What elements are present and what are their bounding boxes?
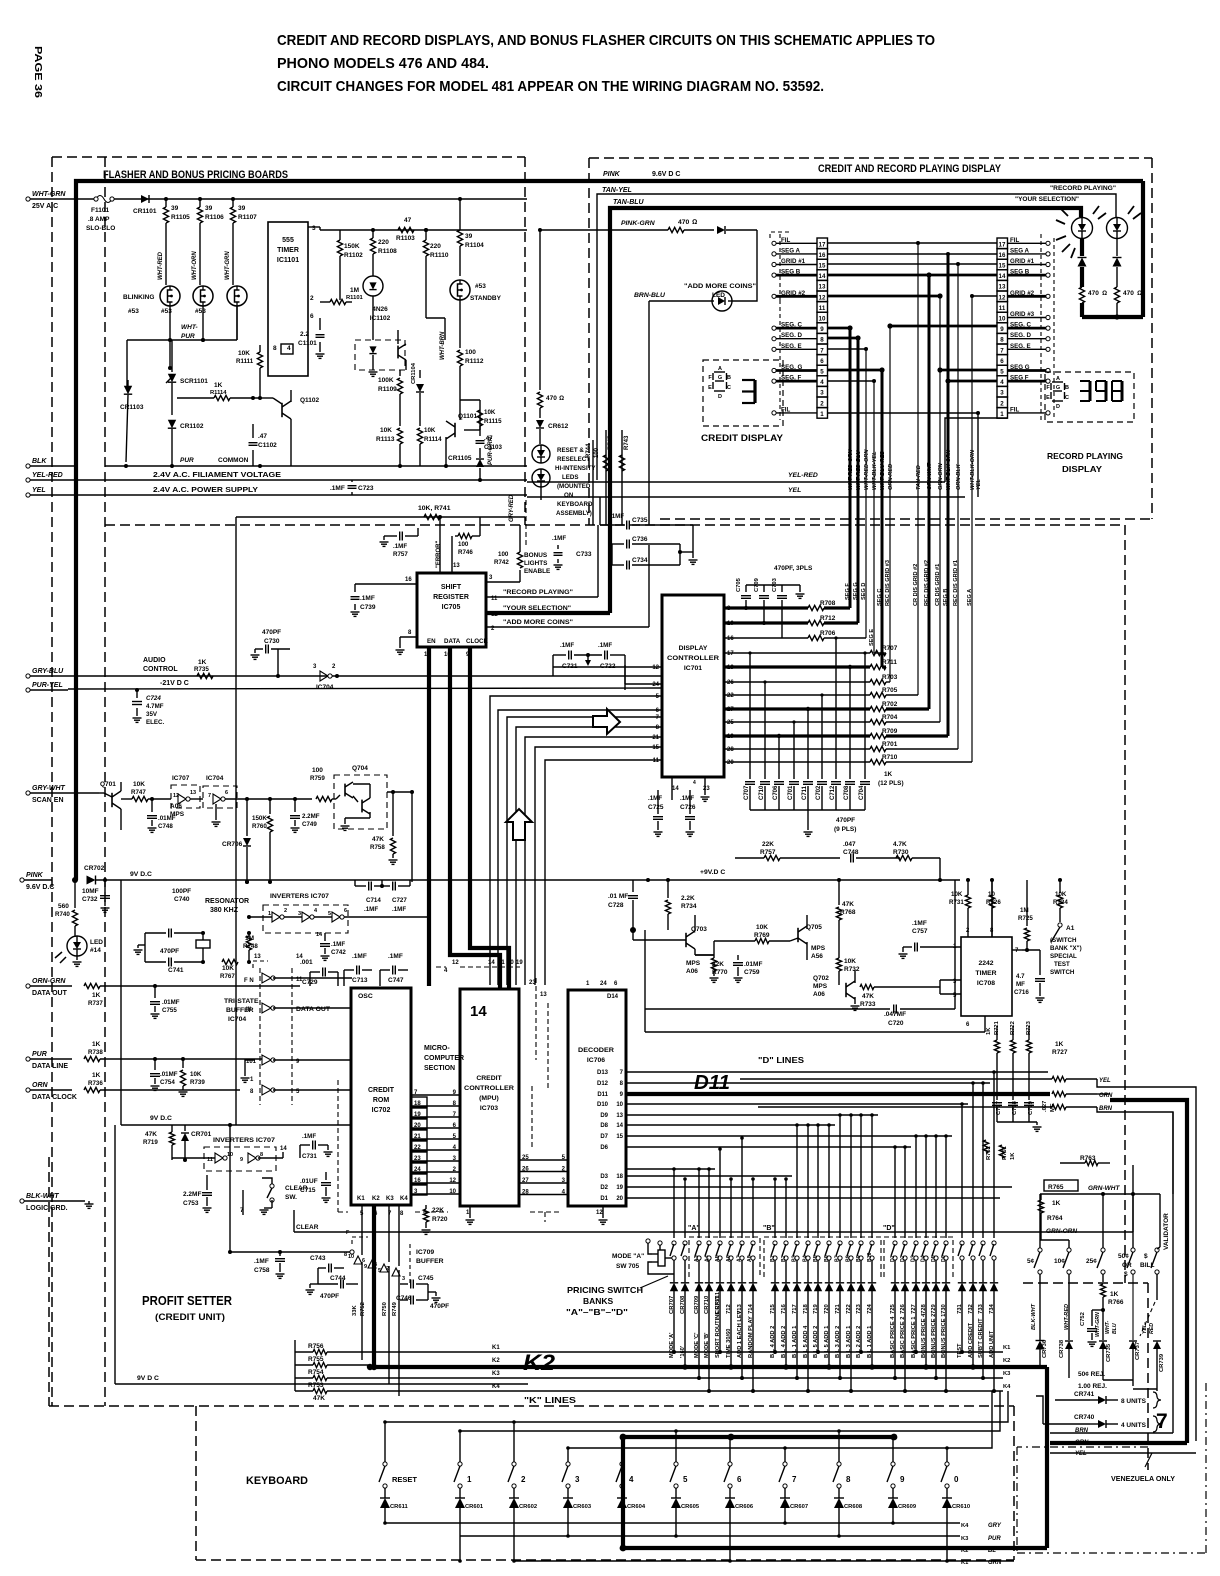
svg-text:C: C [727,385,731,391]
svg-text:K2: K2 [492,1358,500,1364]
svg-text:WHT-: WHT- [1105,1320,1111,1334]
svg-text:470: 470 [678,219,690,226]
diode in opto [369,296,378,376]
wire a1 to right rail [1059,879,1061,881]
svg-text:5: 5 [1000,369,1004,376]
svg-text:R739: R739 [190,1079,205,1086]
svg-text:R1101: R1101 [346,295,364,301]
hollow arrow right [593,709,620,734]
svg-text:MICRO-: MICRO- [424,1045,450,1052]
svg-text:TRI-STATE: TRI-STATE [224,998,259,1005]
svg-text:.1MF: .1MF [680,795,694,802]
resistor R1105 [163,197,190,285]
svg-text:KEYBOARD: KEYBOARD [557,501,593,508]
svg-text:R731: R731 [949,899,964,906]
svg-text:B6: B6 [824,1255,830,1262]
svg-text:1K: 1K [884,771,893,778]
transistor Q703 [630,915,707,975]
svg-text:3: 3 [312,225,316,232]
diode CR612 [536,420,569,444]
svg-text:R702: R702 [882,701,898,708]
svg-text:21: 21 [652,735,659,741]
svg-text:14: 14 [280,1146,287,1152]
svg-text:TIMER: TIMER [975,970,996,977]
svg-text:.1MF: .1MF [302,1133,316,1140]
svg-text:R755: R755 [308,1356,324,1363]
9vdc profit rail [137,1375,159,1382]
svg-text:11: 11 [819,305,826,312]
svg-text:5¢: 5¢ [1027,1258,1035,1265]
svg-text:MPS: MPS [686,960,701,967]
error net [436,515,442,573]
svg-text:D: D [718,394,722,400]
svg-text:K4: K4 [961,1523,969,1529]
D11 handwritten label [694,1072,730,1094]
diode CR1105 [448,455,484,482]
resistor R754 [295,1369,1003,1381]
svg-text:IC704: IC704 [206,775,224,782]
svg-text:8: 8 [260,1152,263,1158]
resistor R748 [243,931,258,964]
wire label WHT-PUR [181,324,198,340]
svg-text:Q1102: Q1102 [300,397,320,404]
svg-text:R734: R734 [681,903,697,910]
svg-text:BANK "X"): BANK "X") [1050,945,1082,952]
svg-text:.1MF: .1MF [254,1258,269,1265]
svg-text:6: 6 [225,790,228,796]
resistor R763 boxed [1044,1155,1110,1191]
capacitor C745 C746 [396,1275,449,1310]
cap C721 C722 pair [553,642,625,690]
svg-text:BLK-WHT: BLK-WHT [26,1193,59,1200]
svg-text:F1101: F1101 [91,207,109,214]
svg-text:.1MF: .1MF [598,642,612,649]
svg-text:555: 555 [282,237,294,244]
svg-text:11: 11 [999,305,1006,312]
inverter IC704 on audio [313,664,339,691]
capacitor C748r [843,841,900,863]
shift register IC705 [417,573,489,647]
coin diodes [1036,1339,1166,1372]
terminal GRY-WHT SCAN [26,785,99,804]
svg-text:10K: 10K [190,1071,202,1078]
svg-text:IC704: IC704 [228,1016,246,1023]
svg-text:10K: 10K [424,427,436,434]
coin switch 10c [1054,1240,1071,1340]
svg-text:CR1105: CR1105 [448,455,472,462]
svg-text:DISPLAY: DISPLAY [1062,464,1102,474]
svg-text:3: 3 [298,911,301,917]
svg-text:CR609: CR609 [898,1504,917,1510]
svg-text:35V: 35V [146,711,158,718]
svg-text:R757: R757 [393,551,408,558]
svg-text:734: 734 [989,1303,995,1314]
svg-text:C735: C735 [632,517,648,524]
ic701 left pin wires nested elbows [490,665,662,985]
svg-text:R1104: R1104 [465,242,484,249]
svg-text:560: 560 [58,903,69,910]
resistor R725 [1018,880,1040,952]
diode your selection [1078,258,1087,288]
resistor R719 [143,1125,175,1160]
svg-text:47K: 47K [862,993,874,1000]
svg-text:BUFFER: BUFFER [416,1258,444,1265]
ic701 right fanout resistors R701-R712 [724,600,972,766]
svg-text:C748: C748 [158,823,173,830]
resistor R730 [893,841,942,882]
resistor R768 [836,878,856,955]
svg-text:A06: A06 [686,968,698,975]
svg-text:.01MF: .01MF [744,961,762,968]
svg-text:SEG B: SEG B [943,589,949,606]
svg-text:BLU: BLU [1112,1323,1118,1334]
svg-text:A3: A3 [694,1255,700,1262]
svg-text:5: 5 [328,911,331,917]
audio control label [143,657,178,673]
svg-text:15: 15 [652,745,659,751]
svg-text:13: 13 [254,954,261,960]
svg-text:WHT-BLK-YEL: WHT-BLK-YEL [872,451,878,490]
svg-text:OSC: OSC [358,993,373,1000]
svg-text:E: E [1046,395,1050,401]
svg-text:728: 728 [921,1303,927,1314]
ic705 pin2 add more coins [486,545,649,632]
svg-text:B9: B9 [856,1255,862,1262]
svg-text:R1110: R1110 [430,252,449,259]
svg-text:C713: C713 [352,977,368,984]
svg-text:"ADD MORE COINS": "ADD MORE COINS" [503,619,573,626]
ic708 pins [905,880,1022,1028]
bundle segment labels [845,560,973,646]
record ladder pins and labels [1007,237,1050,415]
svg-text:ORN-RED: ORN-RED [888,464,894,490]
special test switch A1 [1051,923,1075,942]
svg-text:9V D C: 9V D C [137,1375,159,1382]
svg-text:SECTION: SECTION [424,1065,455,1072]
svg-text:#53: #53 [195,308,206,315]
svg-text:C720: C720 [888,1020,904,1027]
svg-text:WHT-ORN: WHT-ORN [192,251,198,280]
svg-text:C747: C747 [388,977,404,984]
svg-text:7: 7 [820,347,824,354]
coin switch 25c [1086,1248,1105,1282]
svg-text:C715: C715 [300,1187,316,1194]
transistor Q705 [790,915,826,960]
diode CR701 [181,1125,212,1162]
capacitor C740 [145,888,203,938]
svg-text:16: 16 [414,1178,421,1184]
thick junction 9.6 pink [72,877,78,883]
svg-text:150K: 150K [252,815,267,822]
svg-text:9: 9 [240,1157,243,1163]
svg-text:R758: R758 [370,844,385,851]
ic705 pin16 [355,577,417,592]
credit display 7seg legend [708,366,731,400]
svg-text:C710: C710 [759,785,765,800]
svg-text:15: 15 [616,1134,623,1140]
svg-text:7: 7 [1000,347,1004,354]
svg-text:$: $ [1124,1271,1128,1278]
ic706 bottom pin12 [596,1206,608,1224]
svg-text:9: 9 [900,1475,905,1484]
wire PINK label [603,171,680,178]
svg-text:A56: A56 [811,953,823,960]
svg-text:Ω: Ω [559,395,564,402]
svg-text:PAGE 36: PAGE 36 [32,46,44,98]
svg-text:.047: .047 [843,841,856,848]
svg-text:C708: C708 [844,785,850,800]
svg-text:CR605: CR605 [681,1504,700,1510]
svg-text:23: 23 [414,1156,421,1162]
svg-text:4 UNITS: 4 UNITS [1121,1422,1147,1429]
svg-text:2: 2 [310,295,314,302]
credit fil boxes [0,0,1,1]
svg-text:REC DIS GRID #1: REC DIS GRID #1 [953,560,959,606]
svg-text:6: 6 [310,313,314,320]
coin top wires [1040,1192,1160,1249]
svg-text:PUR-GRN: PUR-GRN [488,436,494,465]
svg-text:D2: D2 [600,1185,608,1191]
svg-text:K1: K1 [357,1196,365,1202]
resistor R731 [949,878,971,915]
resistor R738 [84,1041,262,1062]
svg-text:LIGHTS: LIGHTS [524,560,548,567]
svg-text:2242: 2242 [978,960,993,967]
svg-text:16: 16 [999,252,1006,259]
svg-text:1: 1 [268,911,271,917]
svg-text:MPS: MPS [811,945,826,952]
thick keyboard loop [620,1367,1047,1551]
wire D3 D2 D1 [626,1169,1012,1198]
bottom dashed boundary [49,1157,1014,1406]
thick K2 line [367,1364,1047,1370]
thick wire EN [424,647,429,882]
svg-text:GRN-ORN: GRN-ORN [1046,1228,1077,1235]
transistor Q1102 [260,390,320,466]
resistor R756 [295,1343,1003,1355]
svg-text:B8: B8 [845,1255,851,1262]
svg-text:9.6V D.C: 9.6V D.C [26,884,54,891]
svg-text:#53: #53 [161,308,172,315]
svg-text:16: 16 [727,636,734,642]
svg-text:16: 16 [819,252,826,259]
svg-text:K1: K1 [492,1345,500,1351]
resistor R1114 [177,382,260,401]
svg-text:1.00 REJ.: 1.00 REJ. [1078,1383,1107,1390]
svg-text:IC706: IC706 [587,1057,605,1064]
svg-text:D5: D5 [931,1255,937,1262]
svg-text:R704: R704 [882,714,898,721]
credit display digit [742,380,755,403]
resistor 470 ohm keyboard leds [537,392,564,418]
capacitor C716 [1014,950,1045,1002]
svg-text:C714: C714 [366,897,381,904]
svg-text:9V D.C: 9V D.C [130,871,152,878]
svg-text:CR606: CR606 [735,1504,754,1510]
capacitor C753 [183,1175,212,1212]
svg-text:1K: 1K [986,1027,992,1035]
svg-text:R750: R750 [382,1302,388,1316]
svg-text:GRN-WHT: GRN-WHT [1088,1185,1120,1192]
vertical rail x121 [120,880,122,1125]
wire filament [148,480,527,495]
wire 470 ohm cr612 branch [538,228,542,390]
led add more coins [712,291,732,311]
svg-text:B: B [1065,385,1069,391]
svg-text:.01MF: .01MF [158,815,176,822]
resistor R1111 [236,345,263,400]
svg-text:R725: R725 [1018,915,1033,922]
svg-text:22K: 22K [762,841,774,848]
svg-text:732: 732 [968,1303,974,1314]
svg-text:23: 23 [529,980,536,986]
resistor 470 record playing [1114,287,1142,317]
svg-text:LOGIC GRD.: LOGIC GRD. [26,1205,68,1212]
svg-text:B L 1 ADD 1: B L 1 ADD 1 [867,1326,873,1358]
svg-text:COMPUTER: COMPUTER [424,1055,464,1062]
svg-text:470: 470 [546,395,557,402]
svg-text:"A": "A" [688,1225,700,1232]
svg-text:K4: K4 [400,1196,408,1202]
svg-text:D1: D1 [890,1255,896,1262]
svg-text:8: 8 [273,345,277,352]
svg-text:R1114: R1114 [210,390,227,396]
svg-text:C702: C702 [816,785,822,800]
svg-text:724: 724 [867,1303,873,1314]
svg-text:717: 717 [792,1303,798,1314]
svg-text:39: 39 [205,205,213,212]
ic 555 timer IC1101 [268,222,316,376]
svg-text:K3: K3 [1003,1371,1011,1377]
wire pin6 rail [645,1009,985,1032]
svg-text:2: 2 [284,908,287,914]
ground logic grd [85,1201,94,1208]
svg-text:13: 13 [616,1113,623,1119]
svg-text:470: 470 [1123,290,1134,297]
svg-text:DECODER: DECODER [578,1047,614,1054]
svg-text:4: 4 [693,780,696,786]
svg-text:9V D.C: 9V D.C [150,1115,172,1122]
svg-text:RED: RED [1149,1323,1155,1334]
svg-text:"D": "D" [883,1225,895,1232]
svg-text:CR611: CR611 [390,1504,409,1510]
record fil pin [0,0,1,1]
svg-text:731: 731 [957,1303,963,1314]
svg-text:#53: #53 [128,308,139,315]
resistor R1108 [370,228,397,276]
bank A dashed box [688,1225,760,1277]
svg-text:D14: D14 [607,994,619,1000]
wire GRY-RED label [509,494,526,545]
wire TAN-BLU thick [610,199,1081,613]
svg-text:ON: ON [564,492,574,499]
svg-text:R1107: R1107 [238,214,257,221]
display wire bundle [848,243,982,762]
capacitor C757 [899,920,962,958]
svg-text:39: 39 [238,205,246,212]
svg-text:C716: C716 [1014,989,1029,996]
svg-text:F N: F N [244,978,254,984]
svg-text:27: 27 [522,1178,529,1184]
capacitors C717 C718 C719 [992,1100,1056,1131]
resistor 470 your selection [1079,287,1107,317]
thick wire 9.6VDC top rail [76,181,1143,880]
svg-text:ORN-GRN: ORN-GRN [32,978,66,985]
svg-text:MODE 'A': MODE 'A' [669,1332,675,1358]
svg-text:26: 26 [727,680,734,686]
thick CLOCK drop [470,882,509,988]
resonator [196,898,249,964]
svg-text:CR607: CR607 [790,1504,808,1510]
svg-text:ADD 1 EACH LEV: ADD 1 EACH LEV [737,1310,743,1358]
svg-text:STANDBY: STANDBY [470,295,502,302]
svg-text:#14: #14 [90,947,101,954]
svg-text:DATA OUT: DATA OUT [32,990,68,997]
svg-text:CR608: CR608 [844,1504,863,1510]
svg-text:1K: 1K [214,382,223,389]
led reset hi-intensity 1 [532,445,550,463]
svg-text:2: 2 [820,400,824,407]
capacitor C1103 [476,430,503,455]
resistor R742 [494,525,523,568]
svg-text:.8 AMP: .8 AMP [88,216,110,223]
thick EN drop [427,882,431,986]
inner left dashed boundary [104,157,106,1406]
svg-text:TIME 30/60: TIME 30/60 [726,1329,732,1358]
capacitor C720 [645,880,955,1027]
svg-text:RESET &: RESET & [557,447,584,454]
svg-text:19: 19 [516,960,523,966]
svg-text:DATA LINE: DATA LINE [32,1063,68,1070]
svg-text:SW 705: SW 705 [616,1263,640,1270]
svg-text:BRN: BRN [1099,1106,1113,1112]
svg-text:17: 17 [727,651,734,657]
svg-text:R766: R766 [1108,1299,1124,1306]
svg-text:INVERTERS IC707: INVERTERS IC707 [270,893,329,900]
svg-text:III: III [246,1007,251,1013]
svg-text:D: D [1056,404,1060,410]
svg-text:470PF: 470PF [320,1293,339,1300]
svg-text:1K: 1K [1052,1200,1061,1207]
inverters IC707 lower [204,1137,276,1171]
diode CR702 [84,865,121,885]
svg-text:10: 10 [999,316,1006,323]
capacitor R757 [380,528,419,558]
svg-text:TAN-YEL: TAN-YEL [602,187,632,194]
long vertical rail x236 [228,517,236,1252]
keyboard dashed box [196,1406,1014,1560]
capacitor C724 [132,688,165,726]
svg-text:14: 14 [616,1123,623,1129]
resistor R744 R745 R743 verticals [586,430,630,525]
resistor R1113 [376,420,403,468]
optocoupler IC1102 dashed box [355,306,405,370]
wire label PUR-GRN [488,436,494,465]
resistor R766 [1100,1284,1124,1340]
svg-text:.1MF: .1MF [331,941,345,948]
svg-text:C1101: C1101 [298,340,317,347]
svg-text:ASSEMBLY): ASSEMBLY) [556,510,592,517]
svg-text:C742: C742 [331,949,346,956]
svg-text:MODE "A": MODE "A" [612,1253,644,1260]
svg-text:17: 17 [999,241,1006,248]
resistor R746 [455,517,480,556]
keyboard top rails [385,1391,1008,1448]
svg-text:+9V.D C: +9V.D C [700,869,725,876]
svg-text:CONTROL: CONTROL [143,666,178,673]
svg-text:IC709: IC709 [416,1249,434,1256]
svg-text:WHT-GRN: WHT-GRN [1095,1312,1101,1337]
